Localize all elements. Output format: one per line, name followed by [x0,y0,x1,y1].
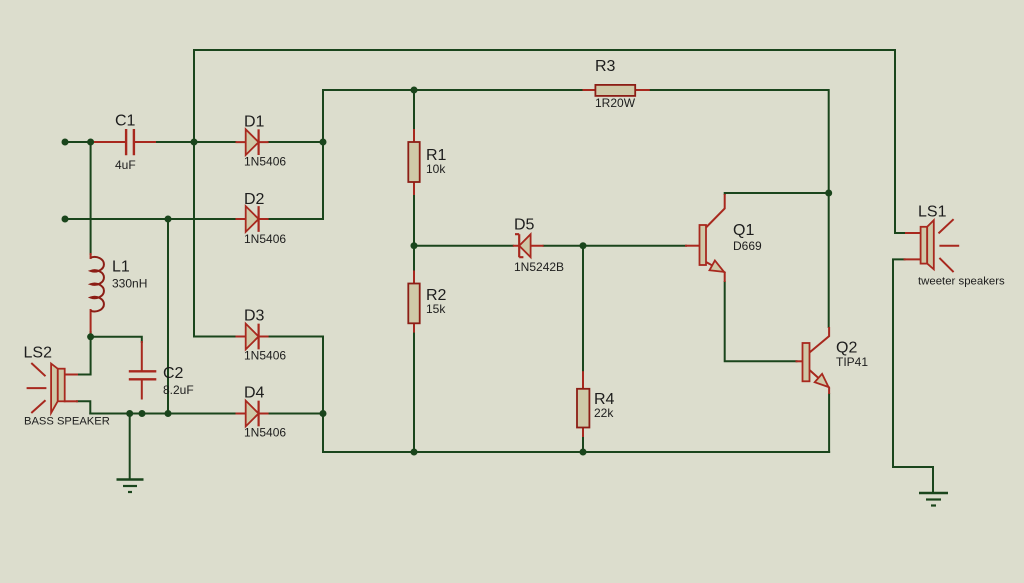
label Q2 [836,340,857,357]
wire D2 cathode to corner x=323 [269,218,323,220]
svg-text:Q1: Q1 [733,222,754,239]
label C2 value [163,383,194,397]
node D5/R4 junction [580,242,587,249]
capacitor C2 [129,371,157,379]
svg-text:LS2: LS2 [24,345,53,362]
node C1/L1 junction [87,139,94,146]
label D1 value [244,155,286,169]
svg-text:15k: 15k [426,302,446,316]
wire Q1 collector top rail to x=828.7 bus [725,193,829,194]
node R4 bottom bus junction [580,449,587,456]
label R3 value [595,96,636,110]
label LS1 value [918,276,1005,288]
svg-text:4uF: 4uF [115,158,136,172]
pin R4 top lead [582,372,584,389]
resistor R2 15k [408,284,419,324]
svg-text:D2: D2 [244,191,265,208]
wire R1 bottom to D5 node to R2 top [413,194,415,272]
label Q1 value [733,239,762,253]
wire bottom-left row to D4 anode [90,413,235,415]
diode D1 1N5406 [236,129,269,155]
pin C2 top lead [141,342,143,370]
label Q1 [733,222,754,239]
svg-text:8.2uF: 8.2uF [163,383,194,397]
pin R3 right lead [635,89,649,91]
node C2 bottom junction [139,410,146,417]
svg-text:330nH: 330nH [112,277,147,291]
diode D3 1N5406 [236,324,269,350]
transistor Q2 TIP41 NPN [803,327,830,394]
label C1 value [115,158,136,172]
label D4 value [244,426,286,440]
pin LS2 bottom lead [65,400,77,402]
wire Q2 emitter down to bottom bus [828,394,830,452]
label R2 [426,287,447,304]
svg-text:Q2: Q2 [836,340,857,357]
svg-text:D4: D4 [244,385,265,402]
wire D5 cathode to Q1 base [544,245,686,247]
label L1 [112,259,130,276]
wire C1 to D1 anode [155,141,236,143]
svg-text:D5: D5 [514,217,535,234]
svg-text:22k: 22k [594,406,614,420]
pin L1 leads and body stub [90,254,92,333]
wire vertical x=583 from D5 row down to R4 [582,246,584,373]
svg-text:D3: D3 [244,308,265,325]
pin C2 bottom lead [141,380,143,398]
svg-text:1N5406: 1N5406 [244,426,286,440]
svg-text:D669: D669 [733,239,762,253]
node Q1 collector junction [825,190,832,197]
label D2 [244,191,265,208]
resistor R3 1R20W [595,85,635,96]
label R4 [594,391,615,408]
zener diode D5 1N5242B [513,234,544,257]
ground (left, below LS2 row) [117,480,144,493]
node D4 cathode junction [320,410,327,417]
node R3 row / R1 top junction [411,87,418,94]
wire Q1 emitter down and right to Q2 base [725,282,797,361]
wire R3 node down to R1 top [413,90,415,130]
resistor R4 22k [577,389,589,428]
node R2 bottom bus junction [411,449,418,456]
label D2 value [244,232,286,246]
svg-text:LS1: LS1 [918,204,947,221]
svg-text:10k: 10k [426,162,446,176]
svg-text:TIP41: TIP41 [836,355,868,369]
pin R2 top lead [413,272,415,284]
pin R1 bottom lead [413,182,415,194]
label R1 value [426,162,446,176]
diode D4 1N5406 [236,401,269,427]
node input terminal bottom [62,216,69,223]
pin LS1 top lead [906,232,921,234]
node x=168 bottom junction [165,410,172,417]
svg-text:C1: C1 [115,113,136,130]
label D1 [244,114,265,131]
label R4 value [594,406,614,420]
svg-text:1N5242B: 1N5242B [514,260,564,274]
wire D5 row from R1/R2 node to D5 anode [414,245,513,247]
wire R4 bottom to bottom bus [582,436,584,452]
pin LS2 top lead [65,374,77,376]
label D5 value [514,260,564,274]
diode D2 1N5406 [236,206,269,232]
wire vertical x=323 D1-cathode node up to R3 row then right to R3 [323,90,584,219]
wire L1 bottom stub to junction [90,332,92,337]
pin R3 left lead [584,89,596,91]
label D4 [244,385,265,402]
label C1 [115,113,136,130]
inductor L1 [91,257,104,311]
wire D1 cathode to node x=323 [269,141,323,143]
label LS1 [918,204,947,221]
wire left vertical x=194 from top bus down to D3 row [194,50,236,337]
wire D3 cathode to corner x=323 [269,336,323,338]
label D3 [244,308,265,325]
wire D1 row left segment with input terminal [65,141,94,143]
node D1 anode junction [191,139,198,146]
label L1 value [112,277,147,291]
wire bottom bus [323,451,829,453]
svg-text:R3: R3 [595,58,616,75]
wire LS1 bottom pin down to right ground [893,259,933,492]
svg-text:C2: C2 [163,365,184,382]
svg-text:1N5406: 1N5406 [244,155,286,169]
transistor Q1 D669 NPN [700,194,725,282]
svg-text:D1: D1 [244,114,265,131]
pin C1 left lead [94,141,125,143]
label R1 [426,147,447,164]
label D5 [514,217,535,234]
pin R4 bottom lead [582,428,584,437]
pin C1 right lead [135,141,155,143]
pin R1 top lead [413,130,415,142]
wire D4 cathode to node x=323 [269,413,323,415]
wire LS2 bottom pin to bottom-left row [77,401,90,413]
ground (right, below LS1) [919,493,948,506]
wire top bus from node above D1 column to LS1 top pin [194,50,906,233]
svg-text:BASS SPEAKER: BASS SPEAKER [24,416,110,428]
node D1 cathode junction [320,139,327,146]
capacitor C1 [126,129,134,155]
wire vertical x=323 from D3 row to bottom bus [322,337,324,453]
svg-text:tweeter speakers: tweeter speakers [918,276,1005,288]
label LS2 [24,345,53,362]
node input terminal top [62,139,69,146]
wire junction down to LS2 top pin [77,337,91,375]
label LS2 value [24,416,110,428]
svg-text:1N5406: 1N5406 [244,232,286,246]
wire vertical x=90.6 from C1 node down to L1 [90,142,92,254]
svg-text:1N5406: 1N5406 [244,349,286,363]
label Q2 value [836,355,868,369]
label D3 value [244,349,286,363]
node R1/R2/D5 junction [411,242,418,249]
wire LS2 ground stem [129,414,131,479]
wire R2 bottom to bottom bus [413,332,415,452]
label R3 [595,58,616,75]
pin LS1 bottom lead [905,258,921,260]
resistor R1 10k [408,142,419,182]
svg-text:1R20W: 1R20W [595,96,636,110]
wire vertical x=168 from D2 node to bottom-left row [167,219,169,414]
pin Q1 base lead [686,245,700,247]
pin R2 bottom lead [413,323,415,331]
wire junction to C2 top [91,337,142,342]
label C2 [163,365,184,382]
wire D2 row left segment [65,218,236,220]
node D2 row junction x=168 [165,216,172,223]
speaker LS2 bass [27,363,65,413]
speaker LS1 tweeter [921,219,960,272]
wire R3 row from R3 right to collector bus corner, down to Q2 collector [649,90,829,327]
svg-text:L1: L1 [112,259,130,276]
node L1 bottom junction [87,333,94,340]
node ground stem junction [126,410,133,417]
label R2 value [426,302,446,316]
pin Q2 base lead [797,360,803,362]
